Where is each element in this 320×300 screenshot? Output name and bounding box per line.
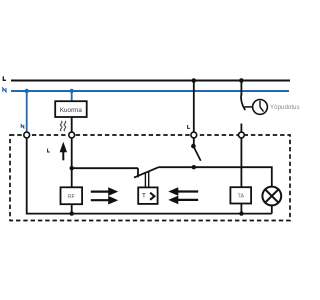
svg-text:Kuorma: Kuorma	[60, 107, 83, 114]
svg-text:TA: TA	[237, 194, 244, 200]
svg-text:Yöpudotus: Yöpudotus	[270, 104, 300, 111]
svg-text:RF: RF	[68, 194, 75, 200]
